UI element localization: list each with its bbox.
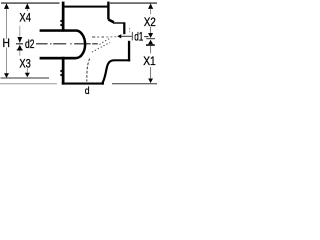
dimension stem H lower [6, 48, 8, 74]
dimension stem H upper [6, 9, 8, 40]
branch top edge [113, 22, 124, 23]
dimension stem X2 lower [150, 27, 152, 33]
arrow X2 bottom [148, 33, 153, 38]
fitting left wall lower [62, 57, 65, 85]
label d2 [24, 40, 35, 49]
arrow H top [4, 3, 9, 8]
tooth 2 [60, 24, 62, 26]
socket rounded cap [76, 31, 85, 59]
bottom dimension line X3/H [1, 77, 50, 79]
dimension stem d2 lower [19, 50, 21, 55]
dimension stem X4 [26, 9, 28, 12]
arrow d2 down [17, 37, 22, 43]
fitting right wall [107, 2, 109, 20]
arrow X2 top [148, 3, 153, 8]
hidden transition curve upper [100, 38, 110, 44]
svg-text:X2: X2 [144, 15, 156, 29]
branch upper face [123, 22, 125, 34]
arrow X4 top [25, 3, 30, 8]
top reference line right [110, 2, 157, 4]
bottom right transition arc [102, 60, 114, 84]
tooth 1 [60, 20, 62, 22]
leader arrow d1 [117, 34, 121, 38]
hidden bore top edge [92, 36, 104, 38]
dimension stem X2 upper [150, 9, 152, 15]
hidden transition curve lower [92, 42, 110, 52]
d1 reference line [146, 38, 155, 40]
leader dash d1 right [144, 36, 148, 38]
bottom extension line gray left [0, 83, 57, 85]
tooth 3 [60, 70, 62, 72]
d2 bottom bar [17, 49, 23, 50]
svg-text:d1: d1 [134, 30, 143, 44]
centerline dash-dot [16, 43, 98, 45]
arrow d1 up [148, 40, 153, 45]
fitting left wall upper [62, 2, 65, 32]
hidden bore vertical curve [87, 59, 90, 82]
dimension stem X3 [26, 68, 28, 73]
bottom reference line right X1 [112, 83, 157, 85]
arrow X1 bottom [148, 79, 153, 84]
branch lower face [128, 41, 130, 62]
fitting top shoulder [64, 6, 108, 8]
tooth 4 [60, 74, 62, 76]
svg-text:d: d [85, 86, 90, 97]
d1 reference bar [146, 44, 155, 46]
arrow d2 up [17, 45, 22, 50]
arrow X3 bottom [25, 73, 30, 78]
svg-text:X1: X1 [143, 54, 156, 68]
dimension stem X1 lower [150, 67, 152, 78]
svg-text:d2: d2 [25, 37, 35, 51]
svg-text:H: H [3, 36, 10, 50]
dimension stem d2 upper [19, 26, 21, 37]
dimension stem X1 upper [150, 46, 152, 54]
branch bottom edge [114, 59, 131, 61]
svg-text:X4: X4 [19, 11, 31, 25]
fitting bottom edge [62, 83, 104, 85]
socket bottom bar [40, 57, 76, 60]
arrow H bottom [4, 73, 9, 78]
top reference line left [1, 2, 60, 4]
svg-text:X3: X3 [19, 56, 31, 70]
leader tick d1 [131, 32, 133, 41]
socket top bar [40, 29, 76, 32]
leader line d1 [121, 35, 132, 37]
branch top diagonal [108, 20, 113, 23]
hidden gray face dashes [129, 28, 131, 33]
